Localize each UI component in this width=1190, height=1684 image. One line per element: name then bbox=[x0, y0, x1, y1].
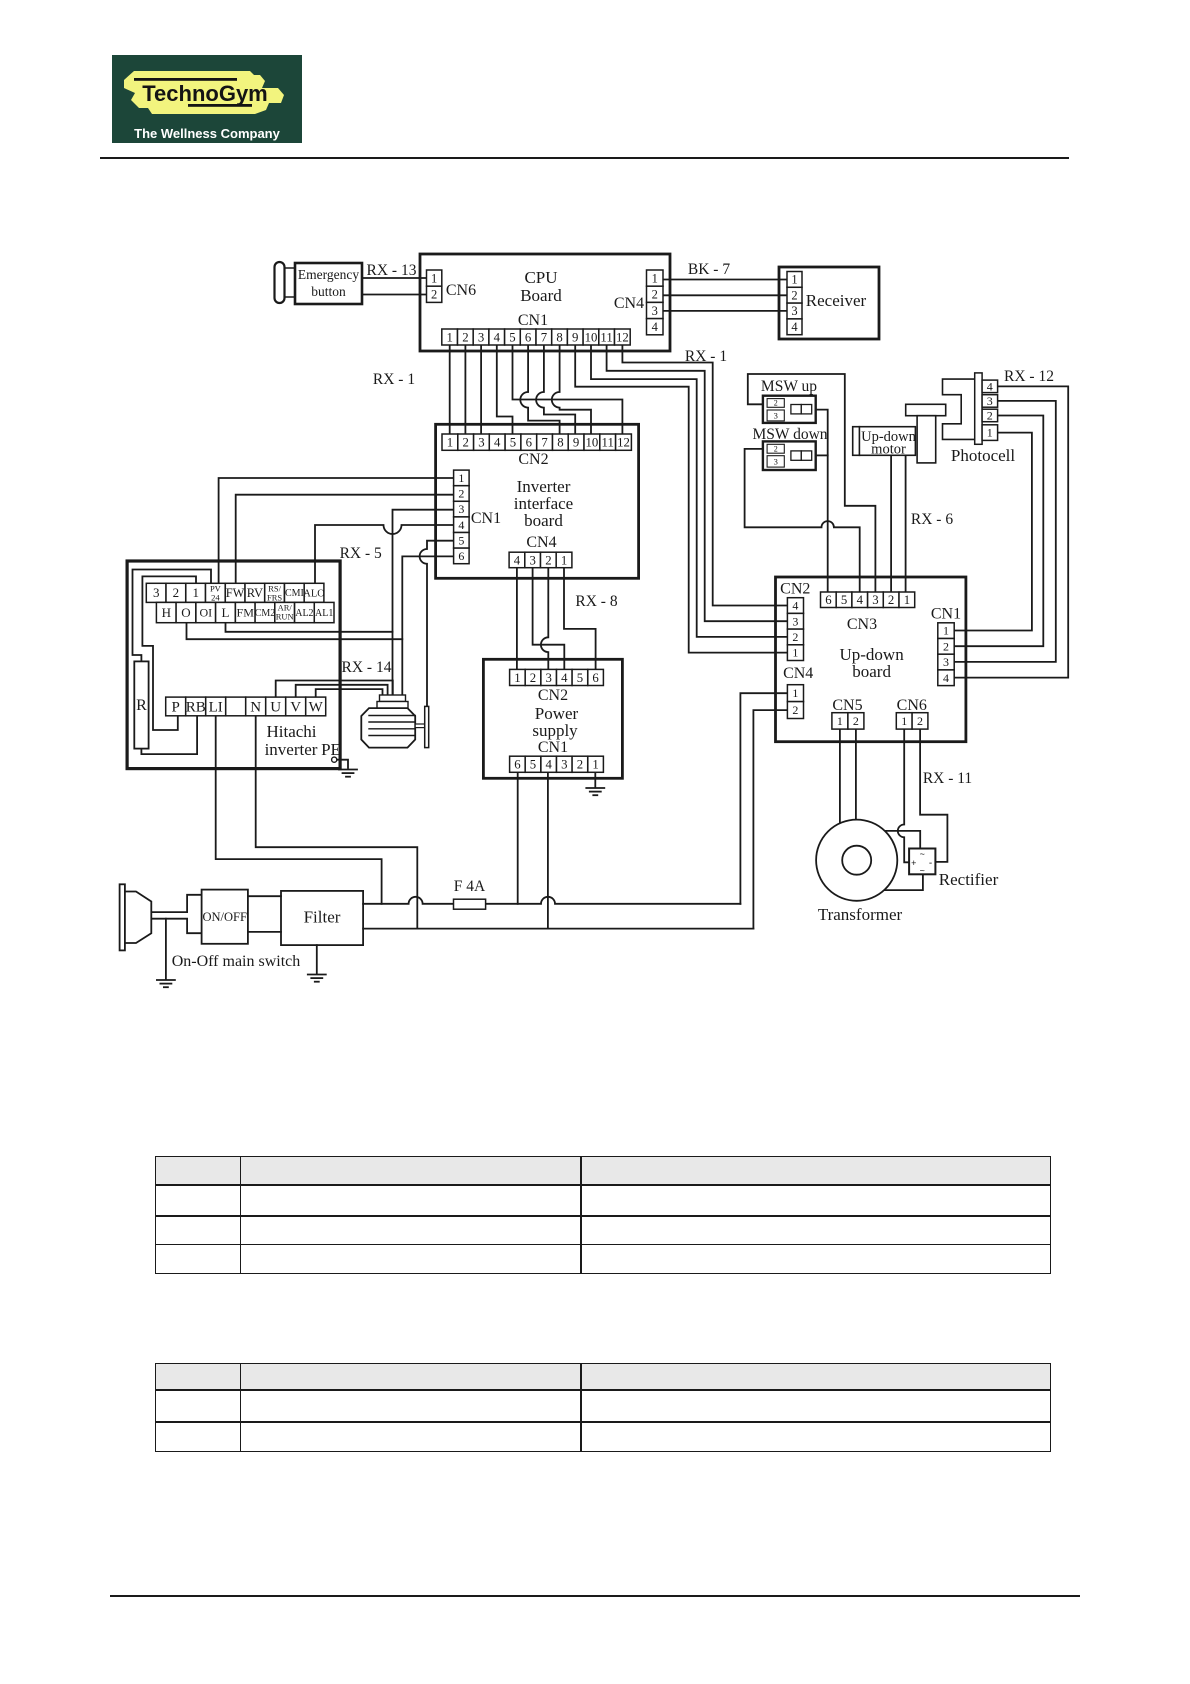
PE terminal bbox=[332, 757, 337, 762]
photocell bracket bbox=[943, 379, 975, 439]
wire up-down CN4 pin2 to bottom rail bbox=[753, 710, 787, 929]
wire inverter CN1 pin4 to Hitachi ALO (hop over pin3 wire) bbox=[315, 525, 454, 584]
wire CPU CN4 pin2 to receiver pin2 bbox=[663, 294, 787, 296]
wire CPU CN1 pin7 to inverter CN2 pin9 (hop) bbox=[536, 345, 575, 436]
svg-text:W: W bbox=[309, 700, 324, 716]
svg-text:5: 5 bbox=[509, 330, 515, 344]
motor flange bbox=[425, 706, 429, 747]
svg-text:3: 3 bbox=[478, 436, 484, 450]
svg-text:4: 4 bbox=[652, 320, 659, 334]
wire resistor R to RB bbox=[141, 716, 197, 754]
wire emergency button to CN6 pin1 (RX-13) bbox=[362, 277, 427, 279]
wire Hitachi N to mains bottom rail bbox=[256, 716, 418, 929]
wire MSW down contact 2 to CN3 pin4 (hop over pin6 wire) bbox=[745, 449, 860, 592]
svg-text:Transformer: Transformer bbox=[818, 905, 903, 924]
svg-text:F 4A: F 4A bbox=[454, 878, 486, 895]
svg-text:FM: FM bbox=[237, 606, 255, 620]
photocell body bbox=[975, 373, 982, 444]
connector pins of photocell (4-1) bbox=[982, 380, 998, 393]
wire up-down CN6 pin1 to rectifier + (hop) bbox=[898, 729, 909, 862]
svg-text:P: P bbox=[172, 700, 180, 716]
svg-text:-: - bbox=[929, 858, 932, 869]
svg-text:2: 2 bbox=[917, 714, 923, 728]
wire inverter CN1 pin5 to motor flange (hop) bbox=[420, 541, 454, 707]
svg-text:2: 2 bbox=[462, 330, 468, 344]
wire MSW down switch joins CN3 pin6 wire bbox=[816, 454, 828, 456]
svg-text:2: 2 bbox=[462, 436, 468, 450]
top rail: filter through fuse F4A to up-down CN4 pin1 (hops) bbox=[363, 897, 740, 904]
resistor R bbox=[134, 661, 148, 748]
svg-text:5: 5 bbox=[510, 436, 516, 450]
svg-text:6: 6 bbox=[526, 436, 533, 450]
wire Hitachi terminal 1 loop to P bbox=[142, 576, 196, 730]
svg-text:CN6: CN6 bbox=[446, 282, 476, 299]
svg-text:1: 1 bbox=[514, 671, 520, 685]
svg-text:4: 4 bbox=[792, 599, 798, 613]
svg-text:RB: RB bbox=[186, 700, 206, 716]
svg-text:1: 1 bbox=[431, 271, 437, 285]
svg-text:RX - 6: RX - 6 bbox=[911, 511, 953, 528]
svg-text:3: 3 bbox=[545, 671, 551, 685]
connector CN2 of power supply (pins 1-6) bbox=[510, 669, 526, 685]
receiver bbox=[779, 267, 879, 339]
svg-text:CN4: CN4 bbox=[526, 534, 556, 551]
wire Hitachi terminal PV24 loop to resistor R bbox=[133, 570, 212, 662]
svg-text:U: U bbox=[270, 700, 281, 716]
svg-text:1: 1 bbox=[901, 714, 907, 728]
connector CN2 of inverter interface (pins 1-12) bbox=[442, 434, 458, 450]
logo yellow banner bbox=[124, 71, 284, 114]
svg-text:2: 2 bbox=[853, 714, 859, 728]
wire photocell pin4 to up-down CN1 pin4 bbox=[954, 386, 1068, 677]
svg-text:FW: FW bbox=[226, 586, 245, 600]
wire mains plug neutral to ON/OFF bbox=[151, 919, 201, 934]
wire Hitachi LI to mains top rail bbox=[216, 716, 382, 904]
wire PS CN1 pin1 to ground bbox=[594, 772, 596, 787]
up-down board bbox=[776, 577, 966, 742]
emergency button bbox=[295, 263, 362, 304]
svg-text:LI: LI bbox=[209, 700, 223, 716]
svg-text:CM2: CM2 bbox=[255, 608, 276, 619]
wire Hitachi U to motor bbox=[276, 681, 393, 698]
svg-text:inverter: inverter bbox=[265, 740, 318, 759]
svg-text:R: R bbox=[136, 697, 147, 714]
svg-text:3: 3 bbox=[478, 330, 484, 344]
svg-text:CN6: CN6 bbox=[897, 697, 927, 714]
wire CPU CN1 pin10 to up-down CN2 pin2 bbox=[591, 345, 789, 637]
wire Hitachi O to motor thermal wire bbox=[187, 623, 403, 639]
svg-text:4: 4 bbox=[791, 320, 798, 334]
connector CN4 of CPU bbox=[647, 270, 664, 286]
wire CPU CN4 pin3 to receiver pin3 bbox=[663, 310, 787, 312]
wire CPU CN1 pin9 to up-down CN2 pin1 (RX-1) bbox=[575, 345, 789, 653]
svg-text:1: 1 bbox=[592, 758, 598, 772]
svg-text:1: 1 bbox=[458, 471, 464, 485]
svg-text:~: ~ bbox=[920, 849, 925, 859]
svg-text:8: 8 bbox=[557, 436, 563, 450]
svg-text:~: ~ bbox=[920, 866, 925, 876]
wire CPU CN1 pin5 to inverter CN2 pin12 bbox=[513, 345, 623, 436]
wire up-down motor to CN3 pin1 bbox=[905, 455, 907, 592]
connector CN1 of inverter interface (pins 1-6) bbox=[454, 470, 470, 486]
svg-text:MSW up: MSW up bbox=[761, 378, 817, 395]
wire Hitachi W to motor bbox=[316, 689, 383, 697]
wire filter case to ground bbox=[316, 945, 318, 973]
svg-text:On-Off main switch: On-Off main switch bbox=[172, 953, 301, 970]
connector CN2 of up-down board (pins 4-1) bbox=[787, 598, 803, 614]
svg-text:Rectifier: Rectifier bbox=[939, 870, 999, 889]
svg-text:FRS: FRS bbox=[267, 593, 282, 603]
svg-text:2: 2 bbox=[530, 671, 536, 685]
svg-text:board: board bbox=[524, 511, 563, 530]
svg-text:1: 1 bbox=[652, 271, 658, 285]
svg-text:AL2: AL2 bbox=[295, 608, 313, 619]
svg-text:10: 10 bbox=[586, 436, 599, 450]
svg-text:9: 9 bbox=[573, 436, 579, 450]
wire inverter CN1 pin2 to Hitachi FW bbox=[236, 495, 454, 584]
svg-text:1: 1 bbox=[943, 624, 949, 638]
svg-text:1: 1 bbox=[837, 714, 843, 728]
microswitch MSW down bbox=[763, 441, 816, 470]
svg-text:5: 5 bbox=[458, 533, 464, 547]
svg-text:motor: motor bbox=[871, 442, 906, 458]
svg-text:4: 4 bbox=[987, 379, 993, 393]
connector CN1 of up-down board (pins 1-4) bbox=[938, 623, 954, 639]
svg-text:5: 5 bbox=[530, 758, 536, 772]
svg-text:1: 1 bbox=[904, 593, 910, 607]
svg-text:2: 2 bbox=[774, 399, 778, 408]
connector CN6 of CPU bbox=[427, 270, 442, 286]
svg-text:CN5: CN5 bbox=[832, 697, 862, 714]
svg-text:CN2: CN2 bbox=[518, 451, 548, 468]
svg-text:RX - 1: RX - 1 bbox=[373, 371, 415, 388]
wire inverter CN4 pin3 to PS CN2 pin4 bbox=[533, 568, 565, 670]
svg-text:1: 1 bbox=[792, 686, 798, 700]
rectifier D1 bbox=[909, 849, 935, 875]
ground mains plug bbox=[157, 979, 175, 981]
svg-text:24: 24 bbox=[211, 593, 220, 603]
svg-text:V: V bbox=[290, 700, 301, 716]
svg-text:4: 4 bbox=[514, 553, 521, 567]
svg-text:3: 3 bbox=[529, 553, 535, 567]
wire PE terminal to ground bbox=[337, 760, 348, 768]
svg-text:3: 3 bbox=[791, 304, 797, 318]
footer rule bbox=[110, 1595, 1080, 1597]
svg-text:2: 2 bbox=[791, 288, 797, 302]
svg-text:9: 9 bbox=[572, 330, 578, 344]
svg-text:RX - 5: RX - 5 bbox=[340, 545, 382, 562]
svg-text:1: 1 bbox=[561, 553, 567, 567]
top rule bbox=[100, 157, 1069, 159]
connector CN3 of up-down board (pins 6-1) bbox=[821, 592, 837, 608]
svg-text:RX - 14: RX - 14 bbox=[342, 659, 392, 676]
wire inverter CN1 pin6 to motor thermal (down) bbox=[402, 556, 453, 701]
svg-text:4: 4 bbox=[458, 518, 464, 532]
svg-text:3: 3 bbox=[153, 585, 160, 600]
svg-text:12: 12 bbox=[617, 436, 630, 450]
connector CN1 of power supply (pins 6-1) bbox=[510, 756, 526, 772]
svg-text:Emergency: Emergency bbox=[298, 267, 359, 282]
svg-text:2: 2 bbox=[888, 593, 894, 607]
svg-text:4: 4 bbox=[545, 758, 552, 772]
wire up-down motor to CN3 pin2 bbox=[890, 455, 892, 592]
wire ON/OFF to filter line bbox=[248, 895, 281, 897]
svg-text:6: 6 bbox=[525, 330, 532, 344]
wire CPU CN1 pin4 to inverter CN2 pin5 bbox=[497, 345, 513, 436]
svg-text:3: 3 bbox=[774, 410, 778, 420]
bottom rail: filter to up-down CN4 pin2 bbox=[363, 928, 753, 930]
wire inverter CN4 pin1 to PS CN2 pin6 bbox=[564, 568, 596, 670]
wire MSW up switch to CN3 pin6 bbox=[816, 410, 828, 592]
wire CPU CN1 pin8 to inverter CN2 pin10 (hop) bbox=[552, 345, 591, 436]
svg-text:N: N bbox=[250, 700, 261, 716]
wire CPU CN1 pin11 to up-down CN2 pin3 bbox=[607, 345, 789, 621]
svg-text:2: 2 bbox=[792, 703, 798, 717]
svg-text:6: 6 bbox=[514, 758, 521, 772]
connector CN1 of CPU (pins 1-12) bbox=[442, 329, 458, 345]
svg-text:Filter: Filter bbox=[304, 908, 341, 927]
svg-text:3: 3 bbox=[561, 758, 567, 772]
wire Hitachi L to motor thermal wire bbox=[226, 623, 393, 632]
microswitch MSW up bbox=[763, 396, 816, 423]
wire inverter CN4 pin4 to PS CN2 pin1 bbox=[516, 568, 518, 670]
wire MSW up contact 2 to CN3 pin3 bbox=[748, 374, 876, 592]
ground filter bbox=[308, 974, 326, 976]
svg-text:OI: OI bbox=[199, 606, 212, 620]
svg-text:CN1: CN1 bbox=[931, 606, 961, 623]
svg-text:RX - 12: RX - 12 bbox=[1004, 368, 1054, 385]
wire inverter CN4 pin2 to PS CN2 pin3 (hop) bbox=[541, 568, 548, 670]
wire plug earth to ground bbox=[165, 919, 167, 979]
svg-text:CN3: CN3 bbox=[847, 616, 877, 633]
svg-text:1: 1 bbox=[447, 436, 453, 450]
svg-text:2: 2 bbox=[173, 585, 180, 600]
svg-text:1: 1 bbox=[987, 425, 993, 439]
svg-text:CN1: CN1 bbox=[538, 739, 568, 756]
terminal row 3 of Hitachi (P RB LI - N U V W) bbox=[166, 697, 186, 716]
svg-text:RV: RV bbox=[247, 586, 263, 600]
connector CN6 of up-down board bbox=[896, 713, 912, 729]
svg-text:3: 3 bbox=[872, 593, 878, 607]
svg-text:1: 1 bbox=[792, 646, 798, 660]
Hitachi inverter bbox=[127, 561, 340, 769]
wire CPU CN4 pin1 to receiver pin1 (BK-7) bbox=[663, 279, 787, 281]
svg-text:+: + bbox=[911, 858, 916, 868]
wire CPU CN1 pin3 to inverter CN2 pin3 bbox=[480, 345, 482, 436]
svg-text:3: 3 bbox=[652, 304, 658, 318]
svg-text:Receiver: Receiver bbox=[806, 291, 867, 310]
wire CPU CN1 pin2 to inverter CN2 pin2 bbox=[464, 345, 466, 436]
svg-text:4: 4 bbox=[494, 436, 501, 450]
svg-text:7: 7 bbox=[541, 330, 548, 344]
svg-text:CMI: CMI bbox=[285, 588, 304, 599]
mains plug bbox=[120, 884, 125, 950]
svg-text:BK - 7: BK - 7 bbox=[688, 261, 730, 278]
wire CPU CN1 pin1 to inverter CN2 pin1 bbox=[449, 345, 451, 436]
svg-text:4: 4 bbox=[561, 671, 568, 685]
svg-text:CN1: CN1 bbox=[471, 510, 501, 527]
svg-text:PE: PE bbox=[321, 740, 341, 759]
svg-text:CN2: CN2 bbox=[780, 581, 810, 598]
svg-text:RX - 13: RX - 13 bbox=[367, 262, 417, 279]
Technogym logo bbox=[112, 55, 302, 143]
svg-text:2: 2 bbox=[577, 758, 583, 772]
svg-text:3: 3 bbox=[987, 394, 993, 408]
wire CPU CN1 pin6 to inverter CN2 pin8 (hop over bus) bbox=[520, 345, 559, 436]
svg-text:6: 6 bbox=[825, 593, 832, 607]
table 2 (empty) bbox=[155, 1363, 1051, 1452]
svg-text:8: 8 bbox=[556, 330, 562, 344]
svg-text:2: 2 bbox=[774, 445, 778, 454]
svg-text:Photocell: Photocell bbox=[951, 446, 1015, 465]
svg-text:CN4: CN4 bbox=[614, 295, 644, 312]
CPU board U1 bbox=[420, 254, 670, 351]
svg-text:6: 6 bbox=[458, 549, 464, 563]
wire photocell pin3 to up-down CN1 pin3 bbox=[954, 401, 1056, 662]
svg-text:12: 12 bbox=[616, 330, 629, 344]
wire CPU CN1 pin12 to up-down CN2 pin4 bbox=[622, 345, 789, 606]
wire photocell pin1 to up-down CN1 pin1 bbox=[954, 433, 1032, 631]
wire rectifier ~ bottom to transformer bbox=[884, 874, 923, 890]
svg-text:board: board bbox=[852, 662, 891, 681]
svg-text:6: 6 bbox=[592, 671, 599, 685]
svg-text:3: 3 bbox=[774, 456, 778, 466]
svg-text:1: 1 bbox=[192, 585, 199, 600]
svg-text:H: H bbox=[162, 605, 171, 620]
wire PS CN1 pin4 to bottom rail bbox=[547, 772, 549, 928]
svg-text:L: L bbox=[222, 605, 230, 620]
svg-text:1: 1 bbox=[791, 273, 797, 287]
svg-text:O: O bbox=[181, 605, 190, 620]
svg-text:5: 5 bbox=[841, 593, 847, 607]
svg-text:3: 3 bbox=[943, 655, 949, 669]
svg-text:1: 1 bbox=[446, 330, 452, 344]
terminal row 2 of Hitachi (H O OI L FM CM2 AR/RUN AL2 AL1) bbox=[156, 602, 176, 622]
transformer T1 bbox=[816, 820, 897, 901]
svg-text:Board: Board bbox=[520, 286, 562, 305]
svg-text:RX - 1: RX - 1 bbox=[685, 348, 727, 365]
svg-text:4: 4 bbox=[943, 671, 949, 685]
wire ON/OFF to filter neutral bbox=[248, 931, 281, 933]
wire emergency button to CN6 pin2 bbox=[362, 294, 427, 296]
svg-text:2: 2 bbox=[987, 408, 993, 422]
svg-text:RX - 8: RX - 8 bbox=[575, 593, 617, 610]
svg-text:RUN: RUN bbox=[276, 612, 294, 622]
table 1 (empty spare parts table) bbox=[155, 1156, 1051, 1274]
wire up-down CN4 pin1 to top rail bbox=[740, 693, 787, 904]
svg-text:button: button bbox=[311, 284, 346, 299]
wire photocell pin2 to up-down CN1 pin2 bbox=[954, 416, 1043, 647]
tread motor bbox=[380, 695, 406, 702]
svg-text:supply: supply bbox=[532, 721, 578, 740]
svg-text:3: 3 bbox=[458, 502, 464, 516]
wire Hitachi V to motor bbox=[296, 685, 388, 697]
connector CN5 of up-down board bbox=[832, 713, 848, 729]
svg-text:2: 2 bbox=[431, 288, 437, 302]
connector CN4 of up-down board (pins 1-2) bbox=[787, 685, 803, 702]
wire PS CN1 pin6 to top rail bbox=[517, 772, 519, 904]
wire inverter CN1 pin3 to motor thermal (down) bbox=[393, 510, 454, 701]
fuse F4A bbox=[454, 899, 486, 909]
wire up-down CN5 pin2 to transformer bbox=[855, 729, 857, 820]
svg-text:Hitachi: Hitachi bbox=[266, 722, 316, 741]
up-down motor bbox=[906, 404, 946, 415]
wire inverter CN1 pin1 to Hitachi PV24 bbox=[219, 478, 454, 584]
svg-text:ALO: ALO bbox=[303, 588, 325, 599]
svg-text:ON/OFF: ON/OFF bbox=[202, 910, 247, 924]
svg-text:4: 4 bbox=[494, 330, 501, 344]
connector CN4 of inverter interface (pins 4-1) bbox=[509, 552, 525, 568]
svg-text:RX - 11: RX - 11 bbox=[923, 770, 972, 787]
svg-text:11: 11 bbox=[600, 330, 612, 344]
emergency button actuator bbox=[275, 262, 285, 303]
svg-text:2: 2 bbox=[792, 630, 798, 644]
wire up-down CN5 pin1 to transformer bbox=[839, 729, 841, 824]
wire mains plug line to ON/OFF bbox=[151, 895, 201, 912]
power supply bbox=[483, 659, 622, 778]
inverter interface board bbox=[436, 424, 639, 578]
wire up-down CN6 pin2 to rectifier - bbox=[920, 729, 947, 862]
svg-text:4: 4 bbox=[857, 593, 864, 607]
motor shaft bbox=[415, 724, 425, 728]
svg-text:11: 11 bbox=[602, 436, 614, 450]
svg-text:5: 5 bbox=[577, 671, 583, 685]
svg-text:2: 2 bbox=[545, 553, 551, 567]
switch ON/OFF bbox=[202, 890, 248, 944]
terminal row 1 of Hitachi (3 2 1 PV24 FW RV RS/FRS CMI ALO) bbox=[146, 583, 166, 602]
svg-text:2: 2 bbox=[458, 487, 464, 501]
svg-text:2: 2 bbox=[943, 639, 949, 653]
svg-text:3: 3 bbox=[792, 614, 798, 628]
connector pins of receiver bbox=[787, 272, 802, 288]
svg-text:10: 10 bbox=[585, 330, 598, 344]
svg-text:CPU: CPU bbox=[524, 268, 557, 287]
wire transformer to rectifier ~ top bbox=[885, 831, 920, 849]
svg-text:CN2: CN2 bbox=[538, 687, 568, 704]
ground PE bbox=[339, 769, 357, 771]
ground power supply bbox=[586, 787, 604, 789]
mains filter bbox=[281, 891, 363, 945]
svg-text:CN1: CN1 bbox=[518, 312, 548, 329]
svg-text:2: 2 bbox=[652, 288, 658, 302]
svg-text:AL1: AL1 bbox=[315, 608, 333, 619]
svg-text:CN4: CN4 bbox=[783, 665, 813, 682]
svg-text:7: 7 bbox=[541, 436, 548, 450]
